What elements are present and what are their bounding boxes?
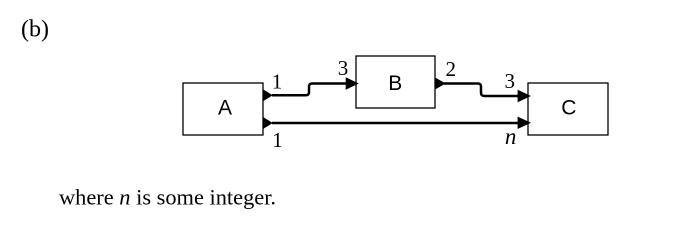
edge B to C wire xyxy=(444,84,519,97)
svg-text:A: A xyxy=(218,97,232,120)
edge B to C source arrowhead at B output port xyxy=(435,77,446,89)
svg-text:C: C xyxy=(561,97,576,120)
svg-text:2: 2 xyxy=(446,57,457,81)
edge A to C wire xyxy=(272,122,519,125)
edge A to B source arrowhead at A output port xyxy=(263,89,273,101)
edge B to C sink arrowhead at C upper input port xyxy=(518,90,531,102)
svg-text:3: 3 xyxy=(338,56,349,80)
svg-text:1: 1 xyxy=(272,69,283,93)
edge A to C sink arrowhead at C lower input port xyxy=(518,117,531,129)
svg-text:(b): (b) xyxy=(21,16,49,42)
edge A to C source arrowhead at A lower output port xyxy=(263,117,273,129)
block C xyxy=(528,83,608,135)
block B xyxy=(356,56,435,108)
svg-text:n: n xyxy=(505,124,517,149)
svg-text:B: B xyxy=(388,72,402,95)
edge A to B sink arrowhead at B input port xyxy=(346,77,359,89)
edge A to B wire xyxy=(272,84,347,96)
block A xyxy=(183,83,263,135)
svg-text:where n is some integer.: where n is some integer. xyxy=(59,185,276,210)
svg-text:3: 3 xyxy=(504,69,515,93)
svg-text:1: 1 xyxy=(272,128,283,152)
